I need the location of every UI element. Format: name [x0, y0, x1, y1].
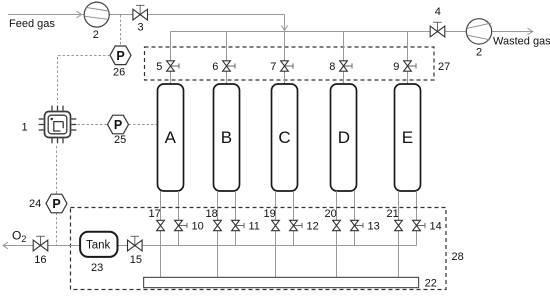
svg-text:16: 16 [34, 254, 46, 266]
svg-text:27: 27 [438, 61, 450, 73]
svg-text:2: 2 [476, 47, 482, 59]
valve 16 [33, 236, 48, 266]
svg-text:2: 2 [93, 29, 99, 41]
svg-text:11: 11 [249, 221, 260, 233]
wire branch column B top [226, 32, 228, 85]
svg-text:23: 23 [91, 262, 103, 274]
collector bar 22 [144, 277, 437, 289]
wire column A to product pipe [178, 191, 180, 246]
valve 20 [325, 208, 341, 231]
wire signal P25 to column A [129, 124, 158, 126]
column B [214, 84, 240, 191]
wire valve 3 to feed down-leg [147, 14, 285, 16]
wire product pipe [118, 245, 417, 247]
valve 5 [156, 61, 179, 73]
valve 10 [175, 220, 204, 232]
svg-text:Tank: Tank [86, 239, 111, 251]
wire feed pipe inlet [8, 14, 84, 16]
valve 9 [393, 61, 416, 73]
svg-text:1: 1 [22, 122, 28, 134]
tank 23 [80, 232, 117, 274]
svg-text:20: 20 [325, 208, 337, 220]
svg-text:A: A [165, 128, 177, 147]
dashed box 28 [71, 208, 447, 290]
wire signal tap to P26 [120, 15, 122, 46]
svg-text:7: 7 [270, 61, 276, 73]
svg-text:17: 17 [149, 208, 161, 220]
wire feed down-leg [284, 15, 286, 32]
valve 4 [430, 6, 445, 37]
instrument P24 [29, 194, 67, 213]
wire signal P26 to controller 1 [58, 56, 111, 104]
svg-text:19: 19 [264, 208, 276, 220]
wire column C to product pipe [293, 191, 295, 246]
wire signal P24 to product pipe [56, 213, 58, 246]
fan 2 (wasted gas blower) [466, 19, 491, 59]
dashed box 27 [145, 47, 435, 80]
valve 19 [264, 208, 280, 231]
column A [158, 84, 184, 191]
column C [272, 84, 298, 191]
column E [395, 84, 421, 191]
svg-text:15: 15 [130, 254, 142, 266]
svg-text:P: P [52, 197, 60, 211]
svg-text:E: E [402, 128, 413, 147]
valve 3 [133, 5, 148, 33]
wire manifold [171, 31, 467, 33]
wire signal controller 1 down to P24 [56, 146, 58, 194]
svg-text:P: P [116, 49, 124, 63]
svg-text:22: 22 [425, 278, 437, 290]
wire column D to product pipe [354, 191, 356, 246]
valve 12 [290, 220, 319, 232]
arrow feed into fan 2 [77, 11, 82, 18]
column D [331, 84, 357, 191]
wire O2 outlet pipe [3, 245, 80, 247]
valve 11 [232, 220, 260, 232]
valve 15 [128, 236, 143, 266]
svg-text:26: 26 [113, 67, 125, 79]
svg-text:13: 13 [368, 221, 380, 233]
wire column D to collector 22 [336, 191, 338, 277]
svg-text:4: 4 [435, 6, 441, 18]
wire column E to product pipe [416, 191, 418, 246]
valve 18 [206, 208, 222, 231]
fan 2 (feed blower) [84, 2, 109, 41]
wire signal controller 1 to P25 [78, 124, 108, 126]
valve 14 [413, 220, 442, 232]
wire branch column D top [343, 32, 345, 85]
svg-text:12: 12 [307, 221, 319, 233]
wire column A to collector 22 [160, 191, 162, 277]
svg-text:C: C [278, 128, 290, 147]
wire branch column A top [170, 32, 172, 85]
svg-text:24: 24 [29, 198, 41, 210]
svg-text:25: 25 [114, 134, 126, 146]
svg-text:D: D [338, 128, 350, 147]
svg-text:P: P [114, 118, 122, 132]
wire fan outlet to wasted gas arrow [492, 31, 533, 33]
instrument P26 [110, 46, 131, 79]
svg-text:18: 18 [206, 208, 218, 220]
svg-text:21: 21 [387, 208, 399, 220]
valve 13 [351, 220, 380, 232]
valve 17 [149, 208, 165, 231]
svg-text:5: 5 [156, 61, 162, 73]
svg-text:Wasted gas: Wasted gas [493, 36, 550, 48]
svg-text:Feed gas: Feed gas [9, 18, 55, 30]
wire branch column E top [407, 32, 409, 85]
controller 1 (microchip) [22, 106, 77, 144]
valve 21 [387, 208, 403, 231]
wire column B to product pipe [235, 191, 237, 246]
arrow O2 outlet [3, 242, 8, 249]
svg-text:9: 9 [393, 61, 399, 73]
svg-text:10: 10 [192, 221, 204, 233]
svg-text:28: 28 [452, 251, 464, 263]
svg-text:B: B [221, 128, 232, 147]
valve 6 [212, 61, 235, 73]
wire column E to collector 22 [398, 191, 400, 277]
svg-text:8: 8 [329, 61, 335, 73]
wire column B to collector 22 [217, 191, 219, 277]
svg-text:14: 14 [430, 221, 442, 233]
wire column C to collector 22 [275, 191, 277, 277]
svg-text:3: 3 [138, 22, 144, 34]
instrument P25 [108, 115, 129, 146]
valve 8 [329, 61, 352, 73]
arrow wasted gas [528, 28, 533, 35]
arrow feed into manifold [281, 25, 287, 30]
valve 7 [270, 61, 293, 73]
svg-text:6: 6 [212, 61, 218, 73]
wire fan 2 outlet to valve 3 [109, 14, 134, 16]
wire branch column C top [284, 32, 286, 85]
